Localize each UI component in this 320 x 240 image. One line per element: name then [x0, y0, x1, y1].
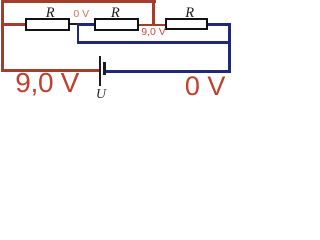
node label 9,0 V at R2-R3 junction	[141, 27, 166, 38]
wire: black stub from R1 to junction node	[69, 23, 78, 25]
wire: red segment between R2 and R3	[138, 24, 166, 27]
resistor R3	[165, 18, 209, 30]
wire: red stub from left rail to resistor R1	[2, 23, 26, 26]
label R of resistor R3	[185, 6, 194, 21]
label 0 V at battery negative side	[185, 73, 226, 100]
resistor R1	[25, 18, 70, 31]
battery U positive plate (long thin)	[99, 56, 101, 86]
wire: blue stub from R3 to right vertical	[208, 23, 231, 26]
battery U negative plate (short thick)	[103, 62, 106, 75]
battery designator U	[96, 88, 106, 102]
resistor R2	[94, 18, 139, 31]
label R of resistor R1	[46, 6, 55, 21]
label 9,0 V at battery positive side	[15, 69, 79, 97]
label R of resistor R2	[111, 6, 120, 21]
wire: blue vertical from R1-R2 junction down to blue rail	[77, 24, 80, 43]
wire: left red vertical conductor	[1, 1, 4, 73]
wire: red vertical drop from top rail to node between R2 and R3	[152, 2, 155, 26]
wire: bottom blue conductor from battery to right vertical	[106, 70, 232, 73]
wire: blue stub from junction node to R2	[77, 23, 95, 25]
node label 0 V at R1-R2 junction	[73, 9, 89, 20]
wire: top red conductor from battery + rail	[1, 0, 156, 3]
wire: blue horizontal rail (0 V net)	[77, 41, 231, 44]
wire: bottom red conductor from left rail to battery	[2, 69, 100, 72]
wire: blue right vertical conductor	[228, 24, 231, 73]
